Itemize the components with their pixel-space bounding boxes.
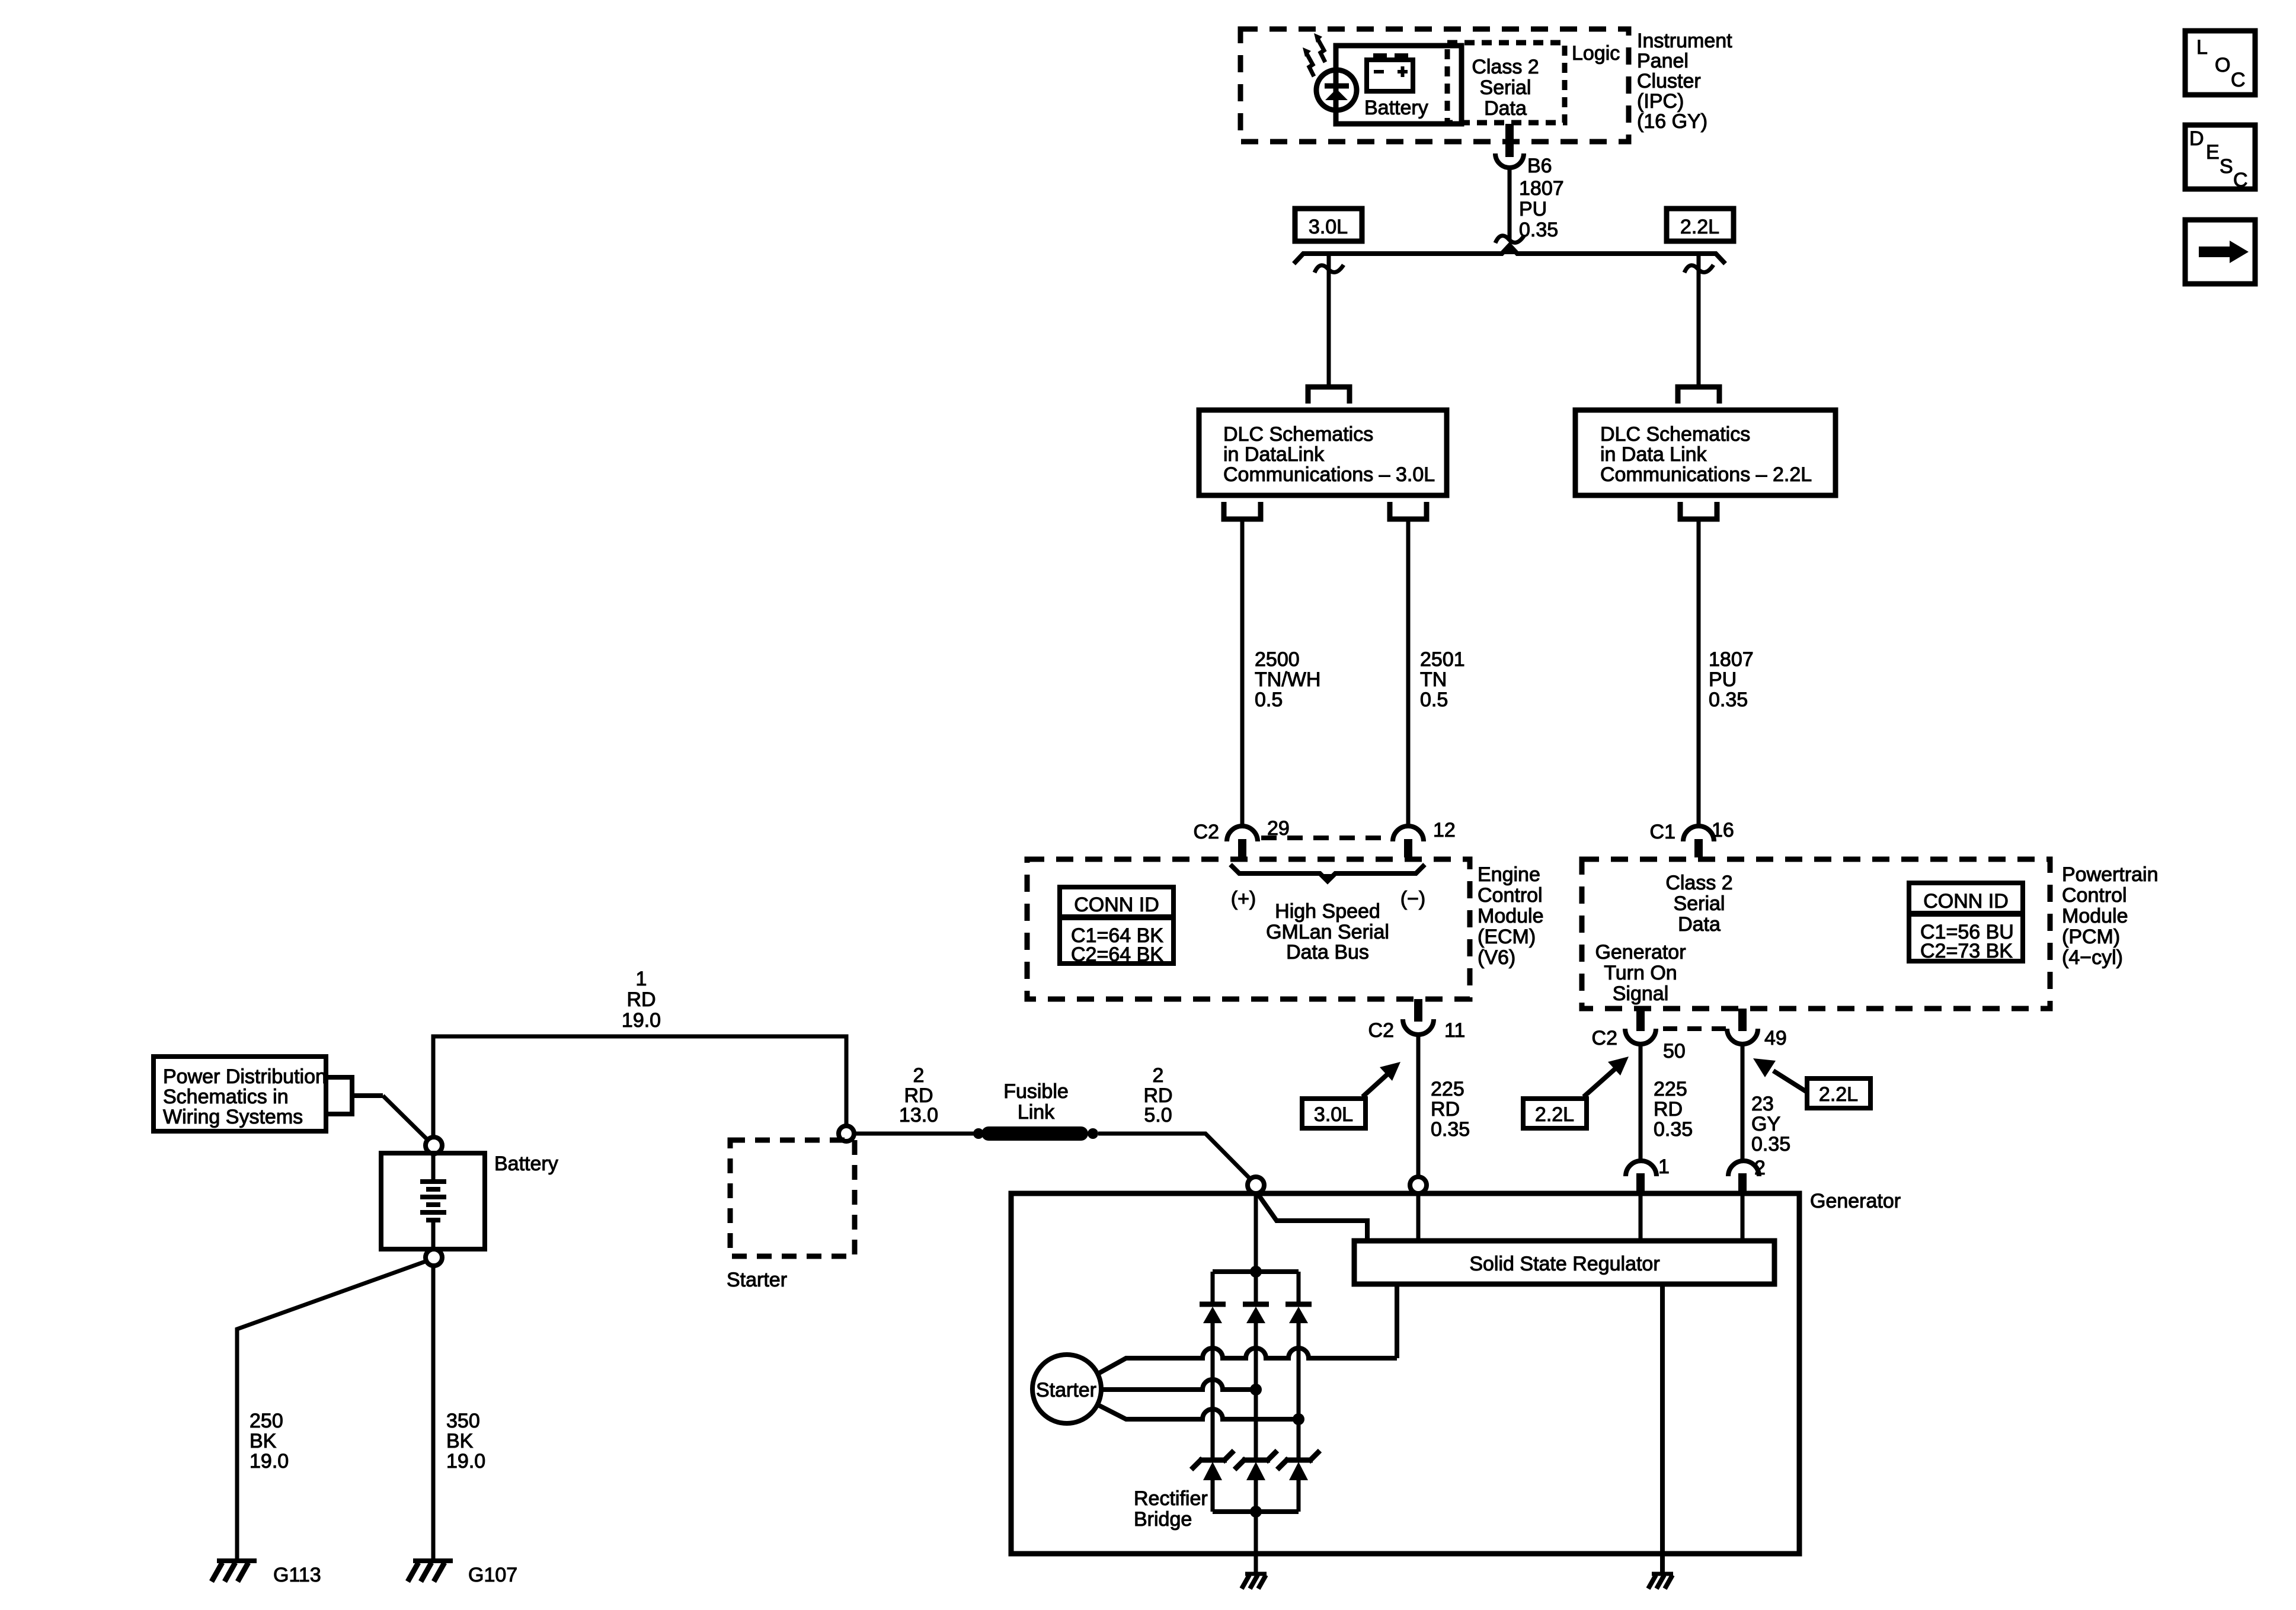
brace center tip bbox=[1322, 874, 1333, 882]
rectifier diode leg 2 (upper) bbox=[1243, 1272, 1269, 1459]
IPC label text bbox=[1637, 30, 1732, 133]
svg-text:Control: Control bbox=[1478, 884, 1543, 907]
wire 250 label bbox=[250, 1410, 289, 1473]
node B+ junction circle bbox=[1248, 1177, 1264, 1193]
rectifier internal ground bbox=[1242, 1574, 1267, 1589]
junction dot bottom bus bbox=[1250, 1506, 1262, 1518]
ground G113 bbox=[212, 1561, 257, 1582]
svg-text:Solid State Regulator: Solid State Regulator bbox=[1469, 1253, 1659, 1275]
svg-text:2: 2 bbox=[913, 1064, 925, 1087]
svg-text:Powertrain: Powertrain bbox=[2062, 863, 2159, 886]
wire fusible link to generator node bbox=[1098, 1134, 1251, 1179]
connector bracket above left DLC bbox=[1308, 387, 1350, 404]
svg-text:3.0L: 3.0L bbox=[1314, 1103, 1353, 1126]
wire bus to left DLC bbox=[1327, 256, 1331, 387]
svg-text:49: 49 bbox=[1764, 1027, 1787, 1049]
svg-text:Serial: Serial bbox=[1480, 76, 1531, 99]
pin 16 stub bbox=[1694, 839, 1703, 857]
brace center peak bbox=[1504, 246, 1515, 254]
svg-text:3.0L: 3.0L bbox=[1309, 216, 1348, 238]
svg-text:Class 2: Class 2 bbox=[1472, 56, 1539, 78]
svg-text:E: E bbox=[2206, 141, 2220, 164]
svg-text:Class 2: Class 2 bbox=[1665, 872, 1732, 894]
svg-text:Starter: Starter bbox=[1036, 1379, 1096, 1401]
svg-text:Battery: Battery bbox=[494, 1153, 558, 1175]
svg-text:C: C bbox=[2231, 69, 2246, 91]
svg-text:(16 GY): (16 GY) bbox=[1637, 110, 1707, 133]
stator phase winding A bbox=[1098, 1348, 1397, 1374]
svg-text:13.0: 13.0 bbox=[899, 1104, 938, 1126]
connector C2 pin 50 stub bbox=[1636, 1009, 1645, 1031]
svg-text:Generator: Generator bbox=[1595, 941, 1686, 964]
svg-text:CONN ID: CONN ID bbox=[1074, 894, 1159, 916]
Class 2 Serial Data label bbox=[1472, 56, 1539, 120]
svg-text:0.35: 0.35 bbox=[1751, 1133, 1790, 1156]
connector C2 pin 50 cup bbox=[1625, 1029, 1656, 1044]
svg-text:Starter: Starter bbox=[727, 1269, 787, 1291]
Power Distribution reference box bbox=[154, 1057, 327, 1131]
svg-text:S: S bbox=[2220, 155, 2233, 178]
svg-text:2.2L: 2.2L bbox=[1680, 216, 1719, 238]
svg-text:Link: Link bbox=[1018, 1101, 1055, 1124]
svg-text:1807: 1807 bbox=[1709, 648, 1754, 671]
regulator internal ground bbox=[1648, 1574, 1673, 1589]
svg-text:in Data Link: in Data Link bbox=[1600, 443, 1707, 466]
connector pin 12 dome bbox=[1393, 826, 1424, 841]
svg-text:Communications – 2.2L: Communications – 2.2L bbox=[1600, 463, 1812, 486]
svg-text:225: 225 bbox=[1431, 1078, 1464, 1100]
forward arrow icon box bbox=[2185, 220, 2255, 284]
node sense junction circle bbox=[1410, 1177, 1427, 1193]
battery indicator solid box bbox=[1336, 46, 1462, 124]
pin 29 stub bbox=[1238, 839, 1246, 857]
connector C2 pin 11 stub bbox=[1414, 999, 1422, 1022]
connector bracket below left DLC (pin B) bbox=[1390, 502, 1427, 519]
3.0L engine flag box bbox=[1295, 209, 1362, 241]
svg-text:Cluster: Cluster bbox=[1637, 70, 1701, 92]
rectifier bottom bus bbox=[1213, 1509, 1299, 1514]
ground G107 bbox=[408, 1561, 453, 1582]
svg-text:350: 350 bbox=[446, 1410, 480, 1432]
svg-text:Instrument: Instrument bbox=[1637, 30, 1732, 52]
connector B6 pin stub bbox=[1505, 124, 1514, 157]
Generator Turn On Signal label bbox=[1595, 941, 1686, 1005]
svg-text:Communications – 3.0L: Communications – 3.0L bbox=[1223, 463, 1435, 486]
battery negative node bbox=[426, 1249, 442, 1266]
2.2L callout arrow (left) bbox=[1584, 1057, 1629, 1097]
CONN ID table (ECM) bbox=[1060, 887, 1173, 966]
svg-text:(+): (+) bbox=[1231, 888, 1256, 910]
svg-text:C2: C2 bbox=[1592, 1027, 1617, 1049]
svg-text:BK: BK bbox=[250, 1430, 277, 1452]
connector pin 1 dome bbox=[1626, 1161, 1657, 1176]
battery icon bbox=[1367, 53, 1413, 91]
dashed connector link 50-49 bbox=[1663, 1026, 1734, 1031]
Generator box bbox=[1011, 1193, 1799, 1554]
wire 250 BK to G113 bbox=[237, 1261, 427, 1561]
connector B6 cup bbox=[1495, 153, 1524, 168]
Starter rotor circle bbox=[1032, 1355, 1101, 1423]
svg-text:11: 11 bbox=[1444, 1019, 1465, 1042]
svg-text:B6: B6 bbox=[1527, 155, 1552, 177]
svg-text:DLC Schematics: DLC Schematics bbox=[1600, 423, 1750, 446]
indicator LED circle bbox=[1316, 70, 1357, 110]
svg-text:PU: PU bbox=[1519, 198, 1547, 220]
connector pin 2 dome bbox=[1728, 1161, 1759, 1176]
wire regulator to internal ground bbox=[1660, 1284, 1665, 1574]
stator phase winding B bbox=[1101, 1379, 1256, 1390]
svg-text:(4−cyl): (4−cyl) bbox=[2062, 946, 2123, 969]
connector C2 pin 29 dome bbox=[1227, 826, 1258, 841]
svg-text:C: C bbox=[2233, 169, 2248, 191]
wire 350 BK to G107 bbox=[431, 1266, 436, 1561]
Solid State Regulator box bbox=[1354, 1241, 1774, 1284]
Rectifier Bridge label bbox=[1134, 1487, 1208, 1531]
brace for GMLan bus pins bbox=[1230, 865, 1425, 881]
PCM label text bbox=[2062, 863, 2159, 969]
connector pin 49 stub bbox=[1738, 1009, 1747, 1031]
wire 2 RD 13.0 bbox=[854, 1132, 979, 1136]
svg-text:1: 1 bbox=[1658, 1156, 1670, 1178]
svg-text:CONN ID: CONN ID bbox=[1923, 890, 2009, 913]
wire 2 RD 5.0 label bbox=[1143, 1064, 1172, 1126]
junction dot phase B bbox=[1250, 1384, 1262, 1395]
wire node to rectifier center bbox=[1254, 1193, 1258, 1272]
svg-text:225: 225 bbox=[1654, 1078, 1687, 1100]
DLC Schematics 3.0L box bbox=[1199, 410, 1447, 495]
Engine Control Module dashed box bbox=[1027, 859, 1470, 999]
svg-text:250: 250 bbox=[250, 1410, 283, 1432]
svg-text:GY: GY bbox=[1751, 1113, 1780, 1135]
svg-text:in DataLink: in DataLink bbox=[1223, 443, 1325, 466]
svg-text:RD: RD bbox=[1654, 1098, 1683, 1121]
2.2L callout arrow (right) bbox=[1753, 1058, 1807, 1092]
pin 2 stub bbox=[1738, 1173, 1747, 1193]
svg-text:Module: Module bbox=[2062, 905, 2128, 927]
wire 1807 PU label (top) bbox=[1519, 177, 1564, 241]
svg-text:Signal: Signal bbox=[1613, 982, 1669, 1005]
2.2L callout box (left) bbox=[1523, 1099, 1587, 1128]
DESC reference icon box bbox=[2185, 125, 2255, 191]
CONN ID table (PCM) bbox=[1909, 883, 2023, 962]
starter node circle bbox=[839, 1126, 854, 1141]
svg-text:RD: RD bbox=[1431, 1098, 1460, 1121]
svg-text:Power Distribution: Power Distribution bbox=[163, 1065, 327, 1088]
Powertrain Control Module dashed box bbox=[1582, 859, 2050, 1009]
Starter dashed box bbox=[730, 1140, 855, 1256]
svg-text:2: 2 bbox=[1754, 1157, 1766, 1179]
svg-text:2500: 2500 bbox=[1255, 648, 1300, 671]
svg-text:0.35: 0.35 bbox=[1709, 689, 1748, 711]
svg-text:(PCM): (PCM) bbox=[2062, 926, 2120, 948]
stator phase winding C bbox=[1098, 1405, 1299, 1419]
svg-text:L: L bbox=[2196, 36, 2208, 59]
Instrument Panel Cluster (IPC) dashed module box bbox=[1240, 29, 1629, 142]
svg-text:0.5: 0.5 bbox=[1255, 689, 1283, 711]
wire 225 RD label (3.0L) bbox=[1431, 1078, 1470, 1141]
wire node 11 into regulator bbox=[1416, 1193, 1421, 1241]
Class 2 Serial Data dashed box (IPC) bbox=[1447, 43, 1565, 123]
dashed connector link 29-12 bbox=[1261, 836, 1392, 840]
wire 350 label bbox=[446, 1410, 485, 1473]
svg-text:Data: Data bbox=[1678, 913, 1721, 936]
svg-text:1807: 1807 bbox=[1519, 177, 1564, 200]
svg-text:2: 2 bbox=[1153, 1064, 1164, 1087]
3.0L callout arrow bbox=[1363, 1062, 1400, 1097]
svg-text:19.0: 19.0 bbox=[446, 1450, 485, 1473]
junction dot phase C bbox=[1293, 1413, 1304, 1425]
svg-text:16: 16 bbox=[1712, 819, 1734, 841]
connector C2 pin 11 cup bbox=[1403, 1019, 1434, 1035]
wire pin 11 to generator node bbox=[1416, 1036, 1421, 1178]
svg-text:Rectifier: Rectifier bbox=[1134, 1487, 1208, 1510]
svg-text:C2: C2 bbox=[1194, 821, 1219, 843]
svg-text:1: 1 bbox=[636, 968, 647, 990]
svg-text:0.35: 0.35 bbox=[1431, 1118, 1470, 1141]
svg-text:G113: G113 bbox=[273, 1564, 321, 1586]
svg-text:2501: 2501 bbox=[1420, 648, 1465, 671]
splice brace bus (3.0L / 2.2L) bbox=[1294, 245, 1725, 264]
pin 12 stub bbox=[1404, 839, 1412, 857]
Fusible Link label bbox=[1003, 1080, 1069, 1124]
wire 23 GY label bbox=[1751, 1093, 1790, 1156]
wire break squiggle (left) bbox=[1315, 265, 1344, 273]
LED light arrows bbox=[1303, 33, 1325, 76]
ECM label text bbox=[1478, 863, 1544, 969]
svg-text:(ECM): (ECM) bbox=[1478, 926, 1536, 948]
svg-text:Bridge: Bridge bbox=[1134, 1508, 1192, 1531]
connector pin 49 cup bbox=[1727, 1029, 1758, 1044]
svg-text:0.5: 0.5 bbox=[1420, 689, 1448, 711]
svg-text:RD: RD bbox=[626, 988, 655, 1011]
svg-text:GMLan Serial: GMLan Serial bbox=[1266, 921, 1389, 943]
svg-text:23: 23 bbox=[1751, 1093, 1774, 1115]
wire 2 RD 13.0 label bbox=[899, 1064, 938, 1126]
wire 2501 TN bbox=[1406, 519, 1411, 825]
svg-text:DLC Schematics: DLC Schematics bbox=[1223, 423, 1373, 446]
wire B6 to splice bus bbox=[1508, 169, 1512, 240]
svg-text:Wiring Systems: Wiring Systems bbox=[163, 1106, 303, 1128]
svg-text:Module: Module bbox=[1478, 905, 1544, 927]
svg-text:Serial: Serial bbox=[1674, 892, 1725, 915]
Battery box bbox=[381, 1153, 485, 1249]
LOC reference icon box bbox=[2185, 31, 2255, 95]
wire 1807 label (lower) bbox=[1709, 648, 1754, 711]
wire break squiggle (right) bbox=[1684, 265, 1713, 273]
junction dot top bus bbox=[1250, 1266, 1262, 1278]
svg-text:C2=73 BK: C2=73 BK bbox=[1920, 940, 2013, 962]
svg-text:C2=64 BK: C2=64 BK bbox=[1071, 943, 1163, 966]
wire node to regulator sense input bbox=[1257, 1193, 1367, 1241]
battery positive node bbox=[426, 1137, 442, 1154]
DLC Schematics 2.2L box bbox=[1575, 410, 1835, 495]
svg-text:Fusible: Fusible bbox=[1003, 1080, 1069, 1103]
wire 1 label bbox=[622, 968, 661, 1032]
rectifier top bus bbox=[1213, 1269, 1299, 1274]
wire 225 RD label (2.2L) bbox=[1654, 1078, 1693, 1141]
svg-text:Turn On: Turn On bbox=[1604, 962, 1677, 984]
svg-text:50: 50 bbox=[1663, 1040, 1686, 1062]
wire regulator to field winding bbox=[1395, 1284, 1399, 1358]
wire pin 50 to generator pin 1 bbox=[1639, 1045, 1643, 1160]
wire pin 49 to generator pin 2 bbox=[1741, 1045, 1745, 1160]
connector C1 pin 16 dome bbox=[1683, 826, 1714, 841]
svg-text:High Speed: High Speed bbox=[1275, 900, 1380, 923]
wire 2500 label bbox=[1255, 648, 1320, 711]
svg-text:Panel: Panel bbox=[1637, 50, 1689, 72]
rectifier diode leg 1 (lower zener) bbox=[1191, 1451, 1234, 1512]
svg-text:(IPC): (IPC) bbox=[1637, 90, 1684, 113]
wire bus to right DLC bbox=[1697, 256, 1701, 387]
2.2L engine flag box bbox=[1667, 209, 1734, 241]
wire break squiggle above bus bbox=[1495, 235, 1524, 243]
battery cell symbol bbox=[420, 1153, 446, 1249]
svg-text:Data Bus: Data Bus bbox=[1286, 941, 1369, 964]
wire 1807 PU (lower) bbox=[1697, 519, 1701, 825]
svg-text:G107: G107 bbox=[468, 1564, 517, 1586]
pin 1 stub bbox=[1636, 1173, 1645, 1193]
svg-text:TN: TN bbox=[1420, 668, 1447, 691]
wire 1 RD 19.0 (battery to starter) bbox=[433, 1036, 846, 1137]
Class 2 Serial Data label (PCM) bbox=[1665, 872, 1732, 936]
svg-text:Generator: Generator bbox=[1810, 1190, 1901, 1212]
svg-text:Battery: Battery bbox=[1364, 97, 1428, 119]
connector bracket below right DLC bbox=[1680, 502, 1717, 519]
svg-text:O: O bbox=[2215, 54, 2230, 76]
3.0L callout box bbox=[1302, 1099, 1366, 1128]
svg-text:BK: BK bbox=[446, 1430, 474, 1452]
wire pin 1 to regulator bbox=[1639, 1193, 1643, 1241]
svg-text:C2: C2 bbox=[1368, 1019, 1394, 1042]
svg-text:Data: Data bbox=[1484, 97, 1527, 120]
svg-text:2.2L: 2.2L bbox=[1535, 1103, 1574, 1126]
svg-text:(−): (−) bbox=[1400, 888, 1426, 910]
connector bracket below left DLC (pin A) bbox=[1224, 502, 1261, 519]
rectifier diode leg 3 (lower zener) bbox=[1277, 1451, 1320, 1512]
svg-text:5.0: 5.0 bbox=[1144, 1104, 1172, 1126]
svg-text:Control: Control bbox=[2062, 884, 2127, 907]
wire pin 2 to regulator bbox=[1741, 1193, 1745, 1241]
svg-text:Schematics in: Schematics in bbox=[163, 1086, 289, 1108]
rectifier diode leg 1 (upper) bbox=[1200, 1272, 1226, 1459]
svg-text:Engine: Engine bbox=[1478, 863, 1540, 886]
svg-text:C1: C1 bbox=[1650, 821, 1675, 843]
off-page bracket bbox=[326, 1077, 383, 1114]
fusible link element bbox=[973, 1126, 1098, 1141]
svg-text:12: 12 bbox=[1433, 819, 1456, 841]
svg-text:2.2L: 2.2L bbox=[1819, 1083, 1858, 1106]
connector bracket above right DLC bbox=[1678, 387, 1719, 404]
2.2L callout box (right) bbox=[1807, 1078, 1870, 1108]
svg-text:19.0: 19.0 bbox=[250, 1450, 289, 1473]
wire 2500 TN/WH bbox=[1240, 519, 1245, 825]
svg-text:TN/WH: TN/WH bbox=[1255, 668, 1320, 691]
rectifier diode leg 2 (lower zener) bbox=[1235, 1451, 1277, 1512]
svg-text:(V6): (V6) bbox=[1478, 946, 1515, 969]
rectifier diode leg 3 (upper) bbox=[1285, 1272, 1312, 1459]
High Speed GMLan label bbox=[1266, 900, 1389, 964]
svg-text:Logic: Logic bbox=[1572, 42, 1620, 65]
wire bracket to battery node bbox=[383, 1096, 429, 1141]
LED diode symbol bbox=[1325, 86, 1349, 100]
svg-text:D: D bbox=[2189, 127, 2204, 150]
svg-text:19.0: 19.0 bbox=[622, 1009, 661, 1032]
svg-text:PU: PU bbox=[1709, 668, 1737, 691]
svg-text:0.35: 0.35 bbox=[1654, 1118, 1693, 1141]
wire rectifier to chassis ground bbox=[1254, 1512, 1258, 1574]
wire 2501 label bbox=[1420, 648, 1465, 711]
